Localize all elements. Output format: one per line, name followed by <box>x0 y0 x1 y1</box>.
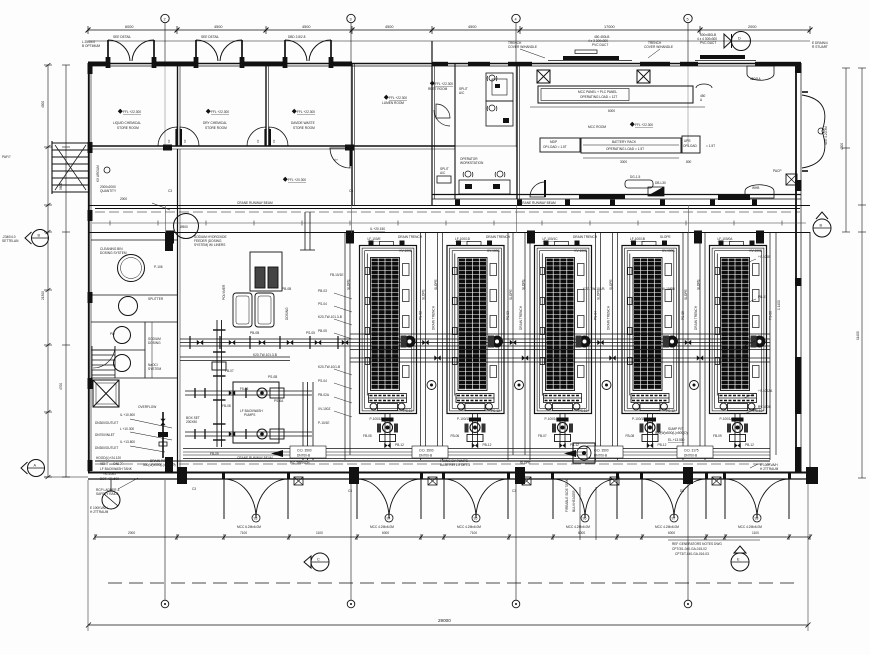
sump pit right <box>655 427 688 442</box>
svg-text:REF GENERATORS NOTES DWG: REF GENERATORS NOTES DWG <box>672 542 722 546</box>
interior vertical walls <box>178 41 520 472</box>
svg-text:IL +10.500: IL +10.500 <box>120 413 135 417</box>
svg-text:DN700-B: DN700-B <box>419 454 432 458</box>
svg-text:SLOPE: SLOPE <box>697 279 701 290</box>
svg-text:MCC 4.2Mx6.0M: MCC 4.2Mx6.0M <box>370 525 394 529</box>
svg-text:500(W)x500(L)x500(D): 500(W)x500(L)x500(D) <box>655 431 688 435</box>
overflow label <box>138 405 156 409</box>
svg-text:MDP: MDP <box>550 140 557 144</box>
svg-text:500(W)x500(L)x500(D): 500(W)x500(L)x500(D) <box>143 463 176 467</box>
svg-text:SAFETY RAILS: SAFETY RAILS <box>96 492 118 496</box>
labels under wall <box>192 487 684 493</box>
svg-text:PB-01: PB-01 <box>758 295 767 299</box>
svg-text:KV-100B: KV-100B <box>750 249 763 253</box>
svg-text:BOT +21.500: BOT +21.500 <box>100 477 119 481</box>
svg-text:FB-06: FB-06 <box>451 434 460 438</box>
svg-text:FB-09: FB-09 <box>713 434 722 438</box>
svg-text:A/C: A/C <box>459 91 465 95</box>
outer walls <box>88 63 810 479</box>
PACP box <box>786 174 797 185</box>
svg-text:3: 3 <box>350 18 352 22</box>
svg-text:FB-07: FB-07 <box>538 434 547 438</box>
svg-text:QUANTITY: QUANTITY <box>100 189 117 193</box>
filter unit 3 <box>535 241 592 414</box>
svg-text:PB-05: PB-05 <box>318 329 327 333</box>
svg-text:C3: C3 <box>168 189 172 193</box>
section marker D top right <box>724 32 751 51</box>
section marker C bottom <box>304 553 329 571</box>
svg-text:S8: S8 <box>755 517 759 521</box>
svg-text:MCC 4.2Mx6.0M: MCC 4.2Mx6.0M <box>655 525 679 529</box>
svg-text:OP.LOAD = 1.5T: OP.LOAD = 1.5T <box>543 145 567 149</box>
svg-text:PB-12: PB-12 <box>395 443 404 447</box>
svg-text:SLOPE: SLOPE <box>684 289 688 300</box>
svg-text:SLOPE: SLOPE <box>609 279 613 290</box>
svg-text:STORE ROOM: STORE ROOM <box>293 126 315 130</box>
pump set 1 <box>377 414 398 449</box>
svg-text:PB-12: PB-12 <box>570 443 579 447</box>
svg-text:PS-03: PS-03 <box>506 311 510 320</box>
svg-text:FB-08: FB-08 <box>626 434 635 438</box>
svg-text:O.D. 3175: O.D. 3175 <box>684 449 699 453</box>
svg-text:PS-0A: PS-0A <box>274 399 284 403</box>
svg-text:CRANE RUNWAY BEAM: CRANE RUNWAY BEAM <box>237 201 273 205</box>
svg-text:SLOPE: SLOPE <box>660 235 671 239</box>
svg-text:C3: C3 <box>348 489 352 493</box>
svg-text:4: 4 <box>515 18 517 22</box>
svg-text:PACP: PACP <box>773 169 781 173</box>
svg-text:LIQUID CHEMICAL: LIQUID CHEMICAL <box>113 121 141 125</box>
svg-text:DRAIN TRENCH: DRAIN TRENCH <box>607 305 611 330</box>
svg-text:DN700-B: DN700-B <box>297 454 310 458</box>
drain pit text <box>143 459 176 467</box>
svg-text:RV-100B: RV-100B <box>758 405 771 409</box>
svg-text:⇦: ⇦ <box>334 157 338 162</box>
svg-text:KV-100B: KV-100B <box>575 249 588 253</box>
svg-text:PØ: PØ <box>110 332 115 336</box>
vertical pipe left <box>217 320 222 447</box>
svg-text:MCC 4.2Mx6.0M: MCC 4.2Mx6.0M <box>738 525 762 529</box>
svg-text:PAF/7: PAF/7 <box>2 155 11 159</box>
wall niches right rooms <box>747 66 774 80</box>
svg-text:PB-0B: PB-0B <box>282 287 291 291</box>
leader ticks left of unit1 <box>334 293 352 417</box>
pump set 2 <box>465 414 486 449</box>
svg-text:D3: D3 <box>680 489 684 493</box>
svg-text:LUMEN ROOM: LUMEN ROOM <box>382 101 404 105</box>
store room double doors <box>106 40 157 68</box>
svg-text:FB-07: FB-07 <box>225 369 234 373</box>
lumen big door left wall <box>434 110 450 126</box>
svg-text:SYSTEM: SYSTEM <box>148 367 161 371</box>
svg-text:DB-L30: DB-L30 <box>655 181 666 185</box>
svg-text:MCC 6.2Mx6.0M: MCC 6.2Mx6.0M <box>237 525 261 529</box>
svg-text:MCC PANEL + PLC PANEL: MCC PANEL + PLC PANEL <box>578 90 617 94</box>
pulley circle bottom-left outside <box>102 491 120 509</box>
svg-text:+V-100ZA: +V-100ZA <box>758 389 773 393</box>
vertical pipes right of box <box>303 382 313 460</box>
svg-text:SLOPE: SLOPE <box>520 461 531 465</box>
svg-text:PS-04: PS-04 <box>318 302 327 306</box>
leader lines <box>118 419 172 489</box>
sump square <box>573 443 595 463</box>
lumen room door <box>330 148 352 168</box>
svg-text:Ø500: Ø500 <box>180 225 188 229</box>
svg-text:PS-05: PS-05 <box>681 311 685 320</box>
svg-text:LF-100/0A: LF-100/0A <box>718 237 734 241</box>
svg-text:DRAIN TRENCH: DRAIN TRENCH <box>486 235 511 239</box>
top wall black segments <box>88 62 108 67</box>
svg-text:OPERATING LOAD = 12T: OPERATING LOAD = 12T <box>580 95 617 99</box>
svg-text:6000: 6000 <box>668 531 675 535</box>
svg-text:SETTELAN: SETTELAN <box>2 239 19 243</box>
wall column fills left <box>88 63 93 74</box>
svg-text:FFL +22.300: FFL +22.300 <box>389 96 407 100</box>
svg-text:S6: S6 <box>583 517 587 521</box>
svg-text:6000: 6000 <box>125 25 133 29</box>
small stair bottom left <box>92 346 115 378</box>
svg-text:K20-TW-101.3-B: K20-TW-101.3-B <box>253 353 277 357</box>
svg-text:S4: S4 <box>387 517 391 521</box>
svg-text:4500: 4500 <box>840 143 844 150</box>
svg-text:7100: 7100 <box>470 531 477 535</box>
svg-text:CPT3/T-040-GA-016-03: CPT3/T-040-GA-016-03 <box>675 552 709 556</box>
svg-text:COVER W/HANDLE: COVER W/HANDLE <box>644 45 673 49</box>
svg-text:DRY CHEMICAL: DRY CHEMICAL <box>203 121 227 125</box>
svg-text:O.D. 3500: O.D. 3500 <box>419 449 434 453</box>
pipe trench <box>183 449 770 459</box>
svg-text:DN300/OUTLET: DN300/OUTLET <box>95 446 118 450</box>
MDP box <box>540 138 580 152</box>
svg-text:4500: 4500 <box>385 25 393 29</box>
svg-text:MCC 4.2Mx6.0M: MCC 4.2Mx6.0M <box>457 525 481 529</box>
svg-text:4500: 4500 <box>302 25 310 29</box>
grid stubs through crane band <box>165 205 167 233</box>
svg-text:PB-12: PB-12 <box>483 443 492 447</box>
svg-text:PS-02: PS-02 <box>419 311 423 320</box>
svg-text:KV-100B: KV-100B <box>400 249 413 253</box>
svg-text:= 1.5T: = 1.5T <box>706 144 715 148</box>
svg-text:POLYMER: POLYMER <box>222 284 226 300</box>
svg-text:SEE 4.20.3M: SEE 4.20.3M <box>824 126 828 145</box>
svg-text:STORE ROOM: STORE ROOM <box>205 126 227 130</box>
svg-text:200X50: 200X50 <box>186 420 197 424</box>
svg-text:S5: S5 <box>474 517 478 521</box>
svg-text:DG-1.5: DG-1.5 <box>630 175 641 179</box>
office door <box>530 182 545 197</box>
svg-text:PS-0B: PS-0B <box>268 375 277 379</box>
svg-text:PB-02A: PB-02A <box>318 393 330 397</box>
O.D. labels in trench <box>290 446 713 465</box>
svg-text:SLOPE: SLOPE <box>509 289 513 300</box>
svg-text:S7: S7 <box>672 517 676 521</box>
svg-text:TK–1001: TK–1001 <box>103 472 116 476</box>
top apron line <box>88 40 810 42</box>
svg-text:C3: C3 <box>512 489 516 493</box>
svg-text:LF BACKWASH TANK: LF BACKWASH TANK <box>100 467 133 471</box>
filter unit 1 <box>360 241 417 414</box>
svg-text:SPLITTER: SPLITTER <box>148 297 164 301</box>
pump set 5 <box>727 414 748 449</box>
svg-text:BULKHEADER: BULKHEADER <box>572 490 576 512</box>
svg-text:PS-04: PS-04 <box>594 311 598 320</box>
svg-text:DRAIN TRENCH: DRAIN TRENCH <box>432 305 436 330</box>
svg-text:PS-06: PS-06 <box>769 311 773 320</box>
svg-text:DN700-B: DN700-B <box>684 454 697 458</box>
dim under panel <box>530 106 705 108</box>
section marker B right <box>813 212 831 237</box>
left dimension columns <box>44 63 70 479</box>
top grid stems and bubbles <box>161 14 169 63</box>
left bottom annotations <box>90 413 135 514</box>
svg-text:KV-100B: KV-100B <box>662 249 675 253</box>
svg-text:XI-10/BB: XI-10/BB <box>662 287 675 291</box>
svg-text:F5-05: F5-05 <box>240 387 249 391</box>
interior horizontal walls <box>88 146 810 233</box>
labels around pipes <box>186 287 315 456</box>
svg-text:OVERFLOW: OVERFLOW <box>138 405 156 409</box>
svg-text:29000: 29000 <box>438 618 451 623</box>
svg-text:CRANE RUNWAY BEAM: CRANE RUNWAY BEAM <box>520 201 556 205</box>
svg-text:PS-12: PS-12 <box>579 409 588 413</box>
door 5 <box>640 472 708 519</box>
MCC panel <box>538 86 693 103</box>
svg-text:O.D. 3500: O.D. 3500 <box>297 449 312 453</box>
top dimension line <box>86 26 813 34</box>
svg-text:800: 800 <box>686 160 692 164</box>
svg-text:17000: 17000 <box>604 25 615 29</box>
svg-text:L +10.300: L +10.300 <box>120 427 134 431</box>
svg-text:2000: 2000 <box>120 197 127 201</box>
svg-text:1 1400: 1 1400 <box>777 300 781 310</box>
svg-text:VENT — DN120: VENT — DN120 <box>100 462 124 466</box>
svg-text:P/C TRENCH: P/C TRENCH <box>290 461 310 465</box>
svg-text:PUMPS: PUMPS <box>244 413 255 417</box>
svg-text:PS-12: PS-12 <box>666 409 675 413</box>
unit labels <box>347 227 773 421</box>
door 3 <box>442 472 510 519</box>
svg-text:MCC 4.2Mx6.0M: MCC 4.2Mx6.0M <box>566 525 590 529</box>
svg-text:H 2TTRAUM: H 2TTRAUM <box>90 510 109 514</box>
svg-text:KX ARGUM: KX ARGUM <box>96 165 100 182</box>
svg-text:BASE REFER DET-3: BASE REFER DET-3 <box>440 463 470 467</box>
svg-text:K2D-TW-101/B: K2D-TW-101/B <box>583 287 605 291</box>
svg-text:P-02: P-02 <box>758 337 765 341</box>
svg-text:2000: 2000 <box>128 531 135 535</box>
svg-text:LF-100/1C: LF-100/1C <box>543 237 559 241</box>
svg-text:FFL +22.300: FFL +22.300 <box>123 110 141 114</box>
stairs left mid <box>52 141 89 194</box>
svg-text:C: C <box>317 558 320 562</box>
battery rack <box>581 138 681 153</box>
svg-text:DOSING: DOSING <box>148 341 161 345</box>
columns along bottom wall <box>177 467 187 484</box>
svg-text:PB-12: PB-12 <box>658 443 667 447</box>
svg-text:2000: 2000 <box>748 25 756 29</box>
svg-text:K20-TW-101.3-B: K20-TW-101.3-B <box>318 315 342 319</box>
door 1 <box>222 472 290 519</box>
svg-text:H 2TTRAUM: H 2TTRAUM <box>760 467 779 471</box>
svg-text:XV-100Z: XV-100Z <box>318 407 330 411</box>
svg-text:FIREABLE SIDE TANK: FIREABLE SIDE TANK <box>565 478 569 512</box>
labels right of unit 5 <box>758 255 781 409</box>
black wall segments bottom MCC <box>579 194 625 199</box>
svg-text:6000: 6000 <box>608 109 615 113</box>
svg-text:SLOPE: SLOPE <box>434 279 438 290</box>
trench cover labels <box>508 33 717 49</box>
svg-text:OP.LOAD: OP.LOAD <box>683 144 697 148</box>
svg-text:WORKSTATION: WORKSTATION <box>460 161 484 165</box>
svg-text:PVC DUCT: PVC DUCT <box>700 41 716 45</box>
svg-text:4500: 4500 <box>41 101 45 108</box>
svg-text:FB-10/1E: FB-10/1E <box>330 273 343 277</box>
left tank room partitions <box>91 240 177 378</box>
svg-text:11400: 11400 <box>856 331 860 340</box>
svg-text:DBD 2.8/2.8: DBD 2.8/2.8 <box>288 35 306 39</box>
filter unit 4 <box>622 241 679 414</box>
svg-text:4500: 4500 <box>214 25 222 29</box>
svg-text:O.D. 3500: O.D. 3500 <box>594 449 609 453</box>
pump set 3 <box>552 414 573 449</box>
svg-text:LF-100/1D: LF-100/1D <box>455 237 471 241</box>
hall FFL label <box>283 177 288 182</box>
svg-text:FFL +22.300: FFL +22.300 <box>297 110 315 114</box>
svg-text:P-106: P-106 <box>154 265 163 269</box>
horizontal pump branch pipes <box>185 388 312 398</box>
svg-text:PB-12: PB-12 <box>745 443 754 447</box>
svg-text:SEE DETAIL: SEE DETAIL <box>201 35 219 39</box>
header labels <box>100 185 127 201</box>
svg-text:DN700-B: DN700-B <box>594 454 607 458</box>
right bottom outside labels <box>760 463 779 471</box>
svg-text:R STUART: R STUART <box>812 45 828 49</box>
svg-text:DN700/INLET: DN700/INLET <box>95 433 115 437</box>
svg-text:PS-05: PS-05 <box>306 331 315 335</box>
svg-text:1100: 1100 <box>316 531 323 535</box>
svg-text:DOSING: DOSING <box>285 307 289 320</box>
svg-text:A/C: A/C <box>440 171 446 175</box>
svg-text:DRAIN TRENCH: DRAIN TRENCH <box>694 305 698 330</box>
crane runway beams top <box>95 209 800 465</box>
svg-text:PVC DUCT: PVC DUCT <box>592 43 608 47</box>
svg-text:IL +13.800: IL +13.800 <box>120 440 135 444</box>
svg-text:PB-03: PB-03 <box>318 289 327 293</box>
vertical pipes top-center <box>300 212 315 250</box>
svg-text:P-100/1B: P-100/1B <box>632 417 645 421</box>
svg-text:DRAIN TRENCH: DRAIN TRENCH <box>573 235 598 239</box>
svg-text:3000: 3000 <box>620 160 627 164</box>
svg-text:DRAIN TRENCH: DRAIN TRENCH <box>519 305 523 330</box>
svg-text:4700: 4700 <box>59 383 63 390</box>
svg-text:SLOPE: SLOPE <box>422 289 426 300</box>
X box pit <box>93 380 119 407</box>
scattered labels below units <box>363 434 754 447</box>
svg-text:DRAIN TRENCH: DRAIN TRENCH <box>398 235 423 239</box>
svg-text:4500: 4500 <box>468 25 476 29</box>
svg-text:DOSING SYSTEM: DOSING SYSTEM <box>100 251 127 255</box>
section marker B left <box>25 230 49 247</box>
svg-text:COVER W/HANDLE: COVER W/HANDLE <box>508 45 537 49</box>
columns mid-left wall <box>165 232 173 251</box>
svg-text:SEE DETAIL: SEE DETAIL <box>113 35 131 39</box>
svg-text:FB-09: FB-09 <box>210 452 219 456</box>
svg-text:REST ROOM: REST ROOM <box>428 87 448 91</box>
svg-text:DN300/OUTLET: DN300/OUTLET <box>95 421 118 425</box>
dg set <box>625 180 653 188</box>
svg-text:FFL +20.300: FFL +20.300 <box>288 178 306 182</box>
svg-text:S3: S3 <box>254 517 258 521</box>
dashed service line <box>108 582 800 584</box>
filter unit 2 <box>447 241 504 414</box>
svg-text:SYSTEM) W/ LINERS: SYSTEM) W/ LINERS <box>194 243 225 247</box>
backwash pumps box <box>233 382 279 443</box>
main horizontal pipe run <box>180 339 770 361</box>
svg-text:+V-100B: +V-100B <box>758 255 770 259</box>
svg-text:PS-12: PS-12 <box>404 409 413 413</box>
svg-text:PB-0B: PB-0B <box>250 331 259 335</box>
right dimension columns <box>842 68 866 478</box>
corner annotation texts <box>2 40 828 243</box>
svg-text:21300: 21300 <box>41 291 45 300</box>
svg-text:1100: 1100 <box>752 531 759 535</box>
svg-text:LF-100/1B: LF-100/1B <box>630 237 645 241</box>
svg-text:PS-12: PS-12 <box>491 409 500 413</box>
X boxes <box>537 70 550 83</box>
svg-text:C3: C3 <box>349 189 353 193</box>
svg-text:HOOD(L)+24.120: HOOD(L)+24.120 <box>96 456 121 460</box>
svg-text:BATTERY RACK: BATTERY RACK <box>612 140 637 144</box>
svg-text:SLOPE: SLOPE <box>522 279 526 290</box>
svg-text:DAVIDE WASTE: DAVIDE WASTE <box>291 121 315 125</box>
wall column fills right <box>795 63 802 73</box>
svg-text:B OPTIMUM: B OPTIMUM <box>82 44 100 48</box>
valve stack bottom-left <box>158 412 168 458</box>
svg-text:LF-100/E: LF-100/E <box>368 237 381 241</box>
svg-text:5: 5 <box>687 18 689 22</box>
svg-text:D: D <box>738 37 741 41</box>
section marker E bottom right <box>731 546 749 571</box>
flow arrows <box>271 450 283 457</box>
polymer units <box>233 252 282 327</box>
svg-text:MCC ROOM: MCC ROOM <box>588 125 606 129</box>
top wall black segments right part <box>432 62 448 66</box>
room labels <box>113 81 453 130</box>
tanks <box>118 255 145 282</box>
svg-text:WHB: WHB <box>752 186 759 190</box>
svg-text:450Ø A: 450Ø A <box>750 77 762 81</box>
runway column marks <box>455 200 460 206</box>
right wall double door <box>802 92 825 171</box>
svg-text:P-10/1E: P-10/1E <box>318 421 330 425</box>
section marker A left bottom <box>21 460 45 477</box>
duct bars <box>563 56 619 60</box>
svg-text:UPS: UPS <box>684 139 691 143</box>
svg-text:P-100/1E: P-100/1E <box>370 417 383 421</box>
svg-text:FB-05: FB-05 <box>363 434 372 438</box>
UPS <box>682 136 700 153</box>
svg-text:6000: 6000 <box>578 531 585 535</box>
svg-text:FB-08: FB-08 <box>222 404 231 408</box>
svg-text:2: 2 <box>164 18 166 22</box>
svg-text:PS-04: PS-04 <box>318 379 327 383</box>
big hall tank <box>174 214 199 239</box>
svg-text:IL +20.150: IL +20.150 <box>370 227 385 231</box>
bottom dimension line 1 <box>93 534 812 540</box>
svg-text:6000: 6000 <box>382 531 389 535</box>
svg-text:C3: C3 <box>192 487 196 491</box>
svg-text:SLOPE: SLOPE <box>347 279 351 290</box>
columns along trench top line <box>166 231 174 244</box>
